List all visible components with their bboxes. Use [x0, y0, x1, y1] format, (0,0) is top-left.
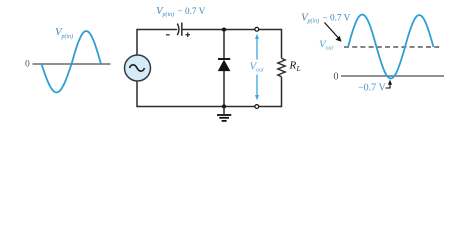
svg-text:R: R [289, 60, 297, 72]
svg-text:L: L [296, 64, 301, 73]
svg-text:0: 0 [334, 72, 339, 83]
svg-text:0: 0 [25, 60, 30, 70]
svg-text:p(in): p(in) [307, 18, 320, 25]
svg-text:−0.7 V: −0.7 V [358, 83, 386, 94]
svg-text:− 0.7 V: − 0.7 V [323, 13, 351, 23]
svg-text:− 0.7 V: − 0.7 V [178, 6, 206, 16]
svg-text:p(in): p(in) [61, 33, 74, 40]
svg-text:out: out [256, 68, 264, 74]
svg-text:p(in): p(in) [162, 11, 175, 18]
svg-text:out: out [326, 46, 334, 52]
